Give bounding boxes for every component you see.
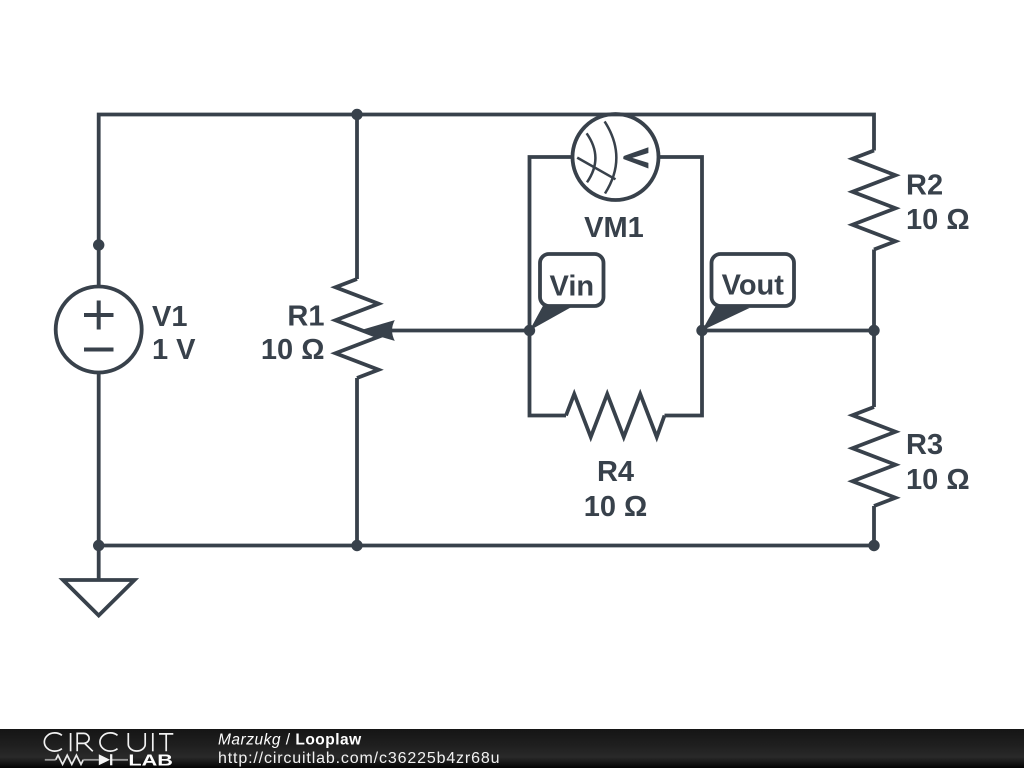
resistor R4 zigzag: [566, 394, 665, 437]
node bottom R1: [351, 540, 362, 551]
wire top rail with left and right drops: [99, 115, 874, 288]
voltmeter VM1 circle: [573, 114, 659, 200]
logo diode symbol: [99, 754, 110, 765]
svg-text:LAB: LAB: [128, 752, 173, 768]
svg-text:1 V: 1 V: [152, 334, 196, 366]
svg-text:Marzukg / Looplaw: Marzukg / Looplaw: [218, 732, 362, 749]
VM1 meter scale arc 1: [587, 133, 596, 182]
wire R1 branch bottom: [355, 378, 359, 546]
node Vin: [524, 325, 535, 336]
resistor R3 zigzag: [853, 407, 896, 506]
svg-text:VM1: VM1: [584, 212, 644, 244]
wire R2 bottom to node: [872, 250, 876, 331]
wire R1 wiper line: [380, 329, 530, 333]
node top R1: [351, 109, 362, 120]
V1 plus sign: [84, 301, 114, 330]
resistor R2 zigzag: [853, 151, 896, 250]
logo CIRCUIT lettering: [44, 733, 173, 751]
VM1 meter needle: [577, 158, 615, 180]
VM1 V glyph (rotated): [623, 147, 648, 168]
wire node to R3 top: [872, 331, 876, 408]
node Vout: [696, 325, 707, 336]
svg-text:Vout: Vout: [722, 270, 785, 302]
node V1 top: [93, 239, 104, 250]
svg-text:R3: R3: [906, 429, 943, 461]
voltage source V1 circle: [56, 287, 142, 373]
wire R3 bottom stub: [872, 506, 876, 546]
svg-text:R2: R2: [906, 170, 943, 202]
footer bar: [0, 729, 1024, 768]
VM1 meter scale arc 2: [605, 121, 617, 193]
wire Vout loop: VM1 right lead down to R4 right: [659, 157, 702, 416]
wire R1 branch top: [355, 115, 359, 280]
wire V1 bottom to ground stub: [97, 373, 101, 581]
wire Vout rail: [702, 329, 874, 333]
logo resistor-diode glyph: [45, 755, 128, 764]
R1 wiper arrowhead: [360, 320, 395, 341]
svg-text:http://circuitlab.com/c36225b4: http://circuitlab.com/c36225b4zr68u: [218, 750, 500, 767]
svg-text:10 Ω: 10 Ω: [906, 204, 970, 236]
node bottom right: [868, 540, 879, 551]
svg-text:R4: R4: [597, 456, 634, 488]
flag Vout box: [712, 254, 795, 306]
wire Vin loop: VM1 left lead down to R4 left: [530, 157, 574, 416]
svg-text:V1: V1: [152, 301, 187, 333]
svg-text:10 Ω: 10 Ω: [906, 464, 970, 496]
svg-text:Vin: Vin: [550, 271, 595, 303]
svg-text:10 Ω: 10 Ω: [261, 334, 325, 366]
ground: [63, 580, 135, 616]
wire bottom rail: [99, 544, 874, 548]
svg-text:10 Ω: 10 Ω: [584, 491, 648, 523]
flag Vin box: [540, 254, 604, 306]
resistor R1 zigzag (potentiometer body): [336, 279, 379, 378]
flag Vin tail: [530, 303, 572, 331]
flag Vout tail: [702, 303, 750, 331]
svg-text:R1: R1: [287, 301, 324, 333]
node bottom left: [93, 540, 104, 551]
V1 minus sign: [84, 348, 114, 352]
node right mid: [868, 325, 879, 336]
